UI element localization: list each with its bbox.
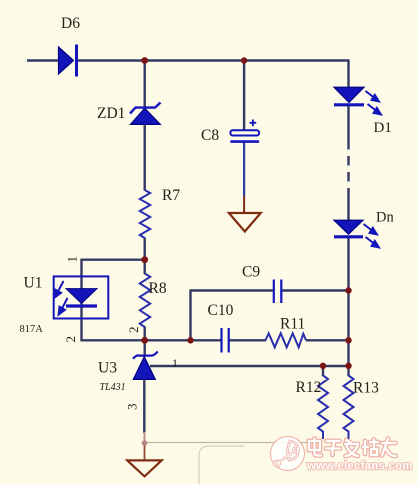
svg-text:C8: C8 (201, 127, 219, 144)
svg-text:R13: R13 (353, 380, 379, 397)
svg-text:817A: 817A (20, 324, 44, 335)
svg-text:1: 1 (65, 256, 80, 263)
svg-text:1: 1 (172, 356, 178, 370)
svg-text:D1: D1 (374, 120, 392, 136)
svg-text:2: 2 (126, 327, 141, 334)
svg-text:R8: R8 (149, 280, 167, 297)
svg-text:3: 3 (125, 404, 140, 411)
svg-text:R11: R11 (280, 316, 305, 333)
svg-text:2: 2 (63, 336, 78, 343)
svg-text:TL431: TL431 (100, 382, 126, 393)
svg-text:R7: R7 (162, 187, 180, 204)
svg-text:C10: C10 (208, 302, 234, 319)
svg-text:Dn: Dn (376, 210, 394, 226)
svg-text:C9: C9 (242, 264, 260, 281)
svg-text:U1: U1 (24, 275, 43, 292)
svg-text:U3: U3 (98, 360, 117, 377)
svg-text:D6: D6 (61, 15, 80, 32)
svg-text:R12: R12 (296, 379, 322, 396)
svg-text:ZD1: ZD1 (97, 105, 125, 122)
svg-text:www.elecfans.com: www.elecfans.com (306, 461, 413, 473)
